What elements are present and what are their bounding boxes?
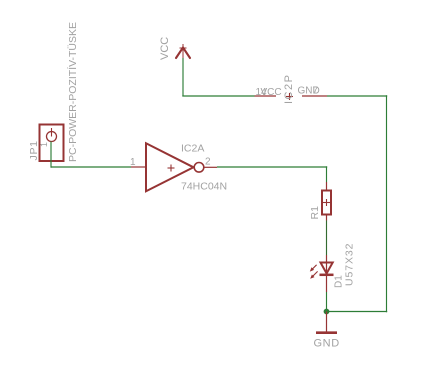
- wire JP1 down: [50, 142, 52, 168]
- svg-text:7: 7: [313, 86, 319, 97]
- connector JP1: [40, 125, 64, 162]
- wire right vertical: [386, 95, 388, 312]
- svg-text:GND: GND: [314, 338, 340, 350]
- LED D1: [310, 255, 334, 292]
- resistor R1: [322, 182, 331, 221]
- wire GND pin to right: [327, 95, 387, 97]
- svg-text:R1: R1: [309, 206, 321, 220]
- svg-text:2: 2: [205, 157, 211, 168]
- op-amp U1 inverter IC2A: [131, 143, 217, 191]
- svg-text:1: 1: [39, 142, 49, 147]
- wire top horizontal: [182, 95, 254, 97]
- wire down to R1: [326, 166, 328, 182]
- wire bottom horizontal: [327, 311, 388, 313]
- wire D1 to junction: [326, 292, 328, 312]
- wire VCC stem: [182, 58, 184, 96]
- svg-text:IC2P: IC2P: [283, 74, 295, 104]
- wire inverter output: [217, 166, 327, 168]
- svg-text:VCC: VCC: [261, 87, 282, 98]
- wire JP1 to inverter: [51, 166, 131, 168]
- svg-text:1: 1: [130, 157, 136, 168]
- ground: [316, 312, 337, 333]
- svg-text:VCC: VCC: [159, 37, 171, 60]
- power gate IC2P: [255, 93, 328, 100]
- supply symbol VCC: [176, 44, 190, 58]
- svg-text:74HC04N: 74HC04N: [181, 181, 227, 193]
- svg-text:PC-POWER-POZITÍV-TÜSKE: PC-POWER-POZITÍV-TÜSKE: [66, 22, 79, 162]
- svg-text:U57X32: U57X32: [344, 243, 356, 286]
- svg-text:IC2A: IC2A: [181, 143, 204, 155]
- node junction: [324, 309, 330, 315]
- wire R1 to D1: [326, 221, 328, 256]
